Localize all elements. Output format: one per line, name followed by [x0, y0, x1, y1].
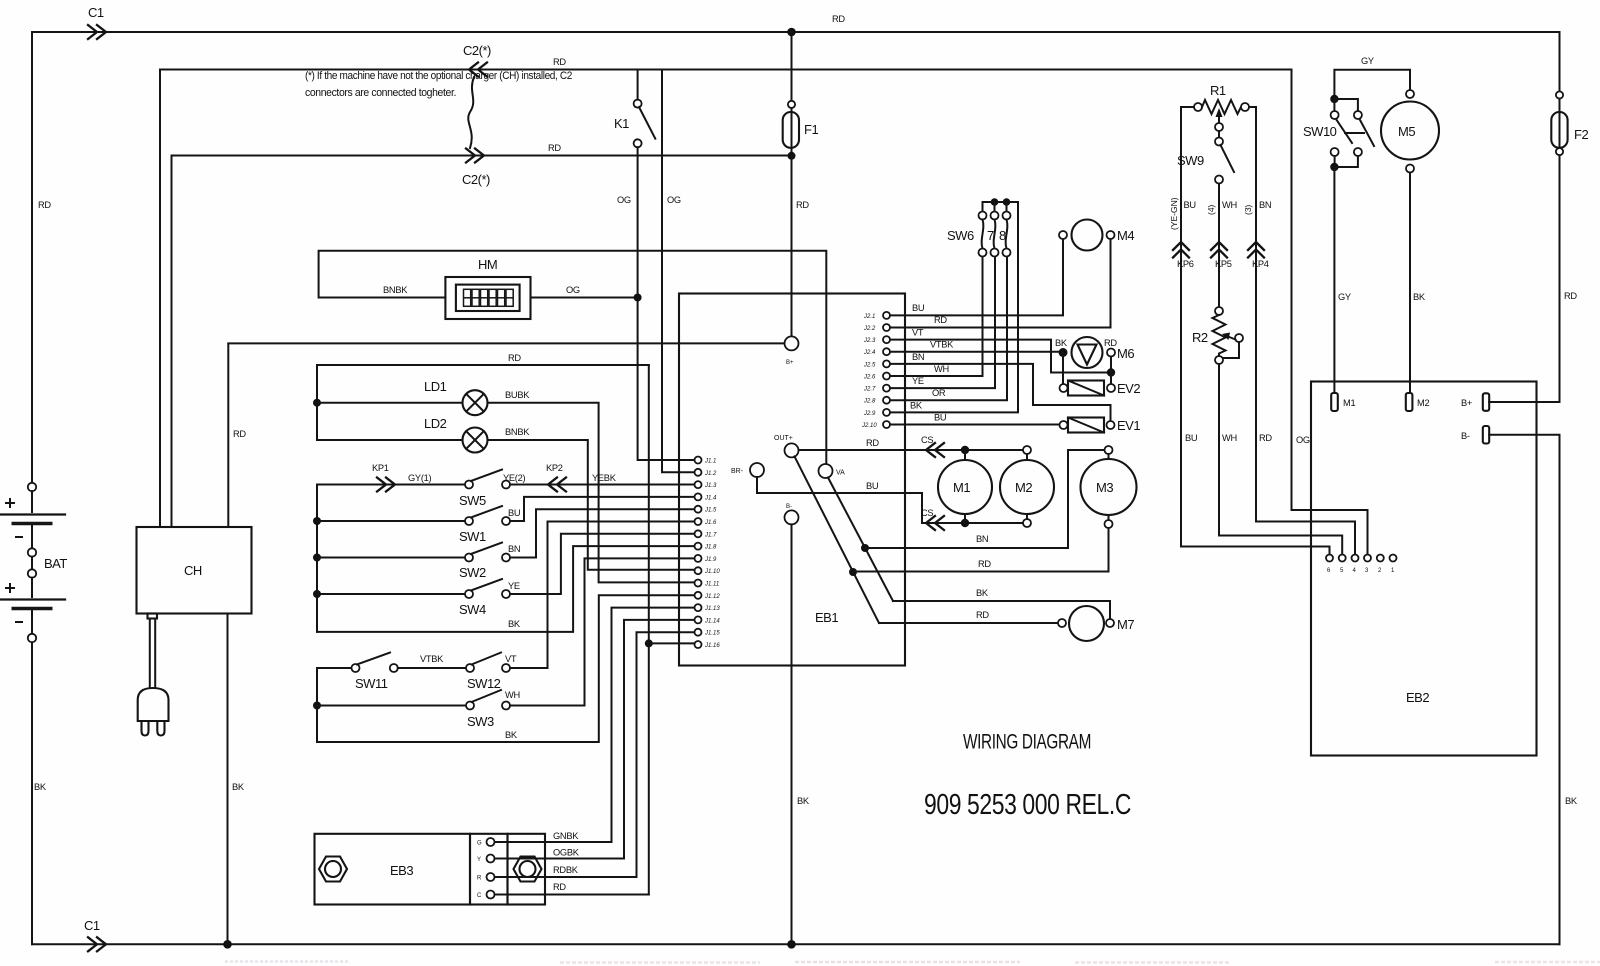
svg-text:M5: M5 — [1398, 124, 1415, 139]
svg-text:BU: BU — [1185, 433, 1197, 443]
wire C2 lower into CH — [171, 156, 173, 528]
svg-text:J2.10: J2.10 — [861, 423, 877, 429]
svg-text:J1.5: J1.5 — [704, 508, 717, 514]
svg-text:BN: BN — [976, 534, 988, 544]
fuse F2 — [1551, 32, 1588, 402]
svg-text:RD: RD — [548, 143, 561, 153]
svg-text:SW4: SW4 — [459, 602, 486, 617]
svg-text:C2(*): C2(*) — [462, 172, 490, 187]
svg-text:(*) If the machine have not th: (*) If the machine have not the optional… — [305, 70, 572, 82]
diagonal OUT+ to M7 RD wire — [795, 457, 880, 624]
svg-text:BN: BN — [1259, 200, 1271, 210]
J1 pin circles and labels — [695, 457, 721, 650]
svg-text:J2.9: J2.9 — [863, 411, 876, 417]
wire BK B- to bottom rail — [791, 524, 793, 944]
svg-text:C1: C1 — [88, 5, 104, 20]
node KP4 connector — [1248, 242, 1264, 258]
cell1 short plate — [12, 522, 53, 525]
wire OR J2.8 to SW6 pole3 — [890, 257, 1007, 401]
wire BK switch-box1 bottom — [317, 546, 695, 632]
svg-text:connectors are connected toghe: connectors are connected togheter. — [305, 87, 456, 99]
wire VT J2.3 to M6 RD and EV2 right — [890, 340, 1111, 373]
svg-text:BUBK: BUBK — [505, 390, 530, 400]
switch SW3 — [317, 558, 695, 729]
terminal B+ — [1483, 393, 1489, 411]
wire RD lamp-box top — [317, 364, 649, 366]
svg-text:F2: F2 — [1574, 127, 1588, 142]
motor M5 — [1381, 90, 1439, 173]
svg-text:OGBK: OGBK — [553, 848, 580, 858]
svg-text:RD: RD — [553, 57, 566, 67]
svg-text:KP6: KP6 — [1177, 259, 1194, 269]
wire WH R2 to EB2 pin5 — [1219, 364, 1342, 555]
wire RD lower C2 net — [172, 155, 792, 157]
svg-text:J2.4: J2.4 — [863, 350, 876, 356]
wire M6 BK to EV2 left — [1062, 353, 1064, 385]
svg-text:SW5: SW5 — [459, 493, 486, 508]
svg-text:RD: RD — [796, 200, 809, 210]
R1 wiper — [1218, 113, 1220, 123]
wire GY SW10 to EB2 M1 — [1333, 167, 1335, 393]
wire BNBK HM left to VA riser — [319, 251, 827, 464]
terminal circle bottom — [28, 634, 36, 642]
svg-text:K1: K1 — [614, 116, 629, 131]
svg-text:RD: RD — [1259, 433, 1272, 443]
svg-text:KP2: KP2 — [546, 463, 563, 473]
wire YE J2.7 to SW6 pole2 — [890, 257, 995, 389]
svg-text:B+: B+ — [1461, 398, 1472, 408]
terminal M1 — [1331, 393, 1338, 411]
svg-text:SW6: SW6 — [947, 228, 974, 243]
svg-text:J1.14: J1.14 — [704, 618, 720, 624]
fuse F1 — [783, 32, 819, 337]
svg-text:J1.7: J1.7 — [704, 532, 717, 538]
diagonal VA to M7 BK wire — [828, 478, 893, 602]
switch SW2 — [317, 509, 695, 580]
svg-text:GY: GY — [1361, 56, 1374, 66]
junction HM OG — [634, 294, 642, 302]
svg-text:B+: B+ — [786, 360, 794, 366]
terminal BR- — [750, 463, 764, 477]
board EB3 — [315, 608, 695, 905]
svg-text:C1: C1 — [84, 918, 100, 933]
bolt 1 — [319, 857, 347, 882]
potentiometer R2 — [1192, 307, 1243, 364]
terminal B+ — [785, 336, 799, 350]
terminal circles mid — [28, 548, 36, 556]
svg-text:CS: CS — [921, 508, 933, 518]
svg-text:J2.1: J2.1 — [863, 314, 875, 320]
motor M3 — [1081, 446, 1137, 528]
cell1 long plate — [0, 513, 65, 515]
junction LD1 bus — [313, 399, 321, 407]
svg-text:BNBK: BNBK — [383, 285, 408, 295]
svg-text:J1.11: J1.11 — [704, 582, 719, 588]
J2 pin circles and labels — [861, 312, 890, 429]
pump M6 — [1055, 337, 1134, 384]
svg-text:RD: RD — [233, 429, 246, 439]
svg-text:(4): (4) — [1206, 204, 1216, 215]
svg-text:RD: RD — [832, 14, 845, 24]
svg-text:R1: R1 — [1210, 83, 1226, 98]
wire WH J2.6 to SW6 pole1 — [890, 257, 983, 377]
svg-text:VTBK: VTBK — [420, 654, 444, 664]
wire RD OUT-diag end to M7 left — [879, 622, 1058, 624]
plus sign cell2 — [6, 584, 14, 592]
battery BAT — [0, 483, 67, 642]
wire OG to J1.1 — [638, 298, 695, 461]
svg-text:BU: BU — [866, 481, 878, 491]
svg-text:RD: RD — [553, 882, 566, 892]
wire RD B+ to CH — [228, 342, 784, 344]
svg-text:J1.10: J1.10 — [704, 569, 720, 575]
junction B- bottom — [787, 940, 796, 949]
board EB2 — [1311, 382, 1537, 756]
svg-text:BK: BK — [797, 796, 810, 806]
svg-text:J1.9: J1.9 — [704, 557, 717, 563]
wire BK J2.9 to SW6 bus — [890, 202, 1018, 412]
svg-text:RD: RD — [934, 315, 947, 325]
wire RD net riser to J1.16 and EB3 — [648, 365, 650, 895]
motor M4 — [1059, 220, 1134, 251]
svg-text:WH: WH — [1222, 433, 1237, 443]
minus sign cell2 — [16, 621, 22, 623]
svg-text:BU: BU — [912, 303, 924, 313]
svg-text:OG: OG — [566, 285, 580, 295]
wire top RD rail — [32, 31, 1560, 33]
svg-text:OUT+: OUT+ — [774, 435, 793, 442]
wire VTBK J2.4 to M6 BK — [890, 351, 1063, 353]
svg-text:J2.8: J2.8 — [863, 399, 876, 405]
svg-text:GY(1): GY(1) — [408, 473, 431, 483]
svg-text:J1.8: J1.8 — [704, 545, 717, 551]
jumper wavy line between C2 connectors — [468, 77, 474, 148]
wire BN J2.5 to EV1 right — [890, 364, 1111, 421]
switch SW6 — [947, 198, 1018, 256]
svg-text:SW12: SW12 — [467, 676, 501, 691]
valve EV1 — [1060, 418, 1141, 434]
wire BK B- to bottom rail — [1489, 435, 1559, 945]
svg-text:B-: B- — [1461, 431, 1470, 441]
svg-text:SW1: SW1 — [459, 529, 486, 544]
svg-text:BAT: BAT — [44, 556, 67, 571]
plus sign cell1 — [6, 499, 14, 507]
svg-text:RD: RD — [976, 610, 989, 620]
svg-text:M4: M4 — [1117, 228, 1134, 243]
svg-text:KP1: KP1 — [372, 463, 389, 473]
svg-text:WH: WH — [505, 690, 520, 700]
motor M7 — [1058, 606, 1134, 641]
switch SW4 — [317, 534, 695, 617]
svg-text:BK: BK — [1413, 292, 1426, 302]
lamp LD2 — [317, 416, 695, 570]
svg-text:BU: BU — [1184, 200, 1196, 210]
svg-text:BU: BU — [934, 413, 946, 423]
svg-text:M2: M2 — [1015, 480, 1032, 495]
switch K1 — [614, 70, 655, 298]
switch SW11 — [317, 653, 466, 692]
wire BK M5 to EB2 M2 — [1409, 173, 1411, 394]
switch SW9 — [1177, 131, 1234, 184]
svg-text:YE(2): YE(2) — [503, 473, 525, 483]
svg-text:LD2: LD2 — [424, 416, 447, 431]
switch SW12 — [466, 522, 695, 692]
svg-text:909 5253 000 REL.C: 909 5253 000 REL.C — [924, 789, 1131, 821]
svg-text:BK: BK — [508, 619, 521, 629]
wire BU J2.1 to M4 left — [890, 239, 1063, 315]
svg-text:J1.1: J1.1 — [704, 459, 716, 465]
svg-text:SW10: SW10 — [1303, 124, 1337, 139]
wire BK switch-box2 bottom — [317, 595, 695, 742]
wire BN VA-diag to M3 top — [865, 450, 1105, 548]
svg-text:J1.3: J1.3 — [704, 483, 717, 489]
svg-text:J1.2: J1.2 — [704, 471, 717, 477]
switch SW5 — [459, 470, 510, 509]
svg-text:OG: OG — [1296, 435, 1310, 445]
svg-text:RD: RD — [1104, 338, 1117, 348]
svg-text:SW3: SW3 — [467, 714, 494, 729]
wire BU J2.10 to EV1 left — [890, 424, 1060, 426]
terminal B- — [785, 510, 799, 524]
minus sign cell1 — [16, 536, 22, 538]
hour meter HM — [319, 251, 827, 464]
svg-text:YE: YE — [912, 376, 924, 386]
wire switch-box2 left bus — [316, 668, 318, 742]
motor M2 — [1000, 446, 1054, 527]
EB2 pins 6-1 — [1326, 555, 1397, 575]
svg-text:GNBK: GNBK — [553, 831, 579, 841]
terminal circle top — [28, 483, 36, 491]
svg-text:EB2: EB2 — [1406, 690, 1429, 705]
junction F1 top — [787, 28, 796, 37]
svg-text:M6: M6 — [1117, 346, 1134, 361]
svg-text:RDBK: RDBK — [553, 865, 579, 875]
svg-text:M7: M7 — [1117, 617, 1134, 632]
svg-text:F1: F1 — [804, 122, 818, 137]
svg-text:J1.16: J1.16 — [704, 643, 720, 649]
svg-text:B-: B- — [786, 504, 792, 510]
svg-text:J1.6: J1.6 — [704, 520, 717, 526]
mains plug of CH — [138, 614, 169, 736]
svg-text:HM: HM — [478, 257, 497, 272]
svg-text:BR-: BR- — [731, 468, 744, 475]
svg-text:YEBK: YEBK — [592, 473, 617, 483]
svg-text:RD: RD — [1564, 291, 1577, 301]
terminal OUT+ — [785, 443, 799, 457]
svg-text:KP4: KP4 — [1252, 259, 1269, 269]
svg-text:BK: BK — [910, 400, 923, 410]
svg-text:EV1: EV1 — [1117, 418, 1140, 433]
svg-text:J2.5: J2.5 — [863, 362, 876, 368]
wire GNBK to J1.13 — [495, 608, 695, 842]
wire RD to J1.16 dot — [495, 894, 649, 896]
svg-text:J2.3: J2.3 — [863, 338, 876, 344]
svg-text:J1.15: J1.15 — [704, 631, 720, 637]
svg-text:J2.2: J2.2 — [863, 326, 876, 332]
svg-text:M3: M3 — [1096, 480, 1113, 495]
svg-text:RD: RD — [508, 353, 521, 363]
bolt 2 — [514, 857, 542, 882]
svg-text:BN: BN — [912, 352, 924, 362]
svg-text:CH: CH — [184, 563, 202, 578]
svg-text:YE: YE — [508, 581, 520, 591]
svg-text:WH: WH — [934, 364, 949, 374]
svg-text:OG: OG — [617, 195, 631, 205]
svg-text:BK: BK — [505, 730, 518, 740]
svg-text:BN: BN — [508, 544, 520, 554]
wire M6 RD to EV2 right — [1110, 357, 1112, 385]
switch SW1 — [317, 497, 695, 544]
wire RDBK to J1.15 — [495, 632, 695, 877]
svg-text:J2.7: J2.7 — [863, 387, 876, 393]
potentiometer R1 — [1194, 83, 1249, 131]
wire left battery BK segment — [31, 642, 33, 944]
svg-text:VT: VT — [912, 328, 924, 338]
wire BU YE-GN kp6 branch — [1181, 107, 1330, 555]
wire BU BR- to M1 M2 bottom — [757, 477, 1023, 523]
svg-text:R2: R2 — [1192, 330, 1208, 345]
svg-text:C: C — [477, 893, 482, 899]
charger CH box — [137, 527, 252, 614]
lamp LD1 — [317, 379, 695, 582]
svg-text:BNBK: BNBK — [505, 427, 530, 437]
svg-text:M2: M2 — [1417, 398, 1429, 408]
svg-text:KP5: KP5 — [1215, 259, 1232, 269]
wire switch-box1 left bus — [316, 485, 318, 632]
cell2 short plate — [12, 607, 53, 610]
svg-text:VT: VT — [505, 654, 517, 664]
svg-text:OG: OG — [667, 195, 681, 205]
junction CH bottom — [223, 940, 232, 949]
svg-text:EB3: EB3 — [390, 863, 413, 878]
wire RD J2.2 to M4 right — [890, 239, 1111, 328]
switch SW10 (double pole) — [1303, 95, 1374, 171]
poles — [979, 212, 987, 220]
svg-text:SW2: SW2 — [459, 565, 486, 580]
wire OG HM right — [531, 297, 638, 299]
svg-text:Y: Y — [477, 857, 481, 863]
wire GY bus SW10-M5 — [1334, 70, 1410, 99]
wire OG to J1.2 — [662, 70, 695, 473]
svg-text:M1: M1 — [1343, 398, 1355, 408]
wire C2 upper into CH — [159, 70, 161, 528]
node KP5 connector — [1211, 242, 1227, 258]
terminal VA — [819, 464, 833, 478]
wire bottom BK rail — [32, 943, 1560, 945]
wire lamp-box left bus — [316, 365, 318, 440]
wire RD B+ to F2 — [1489, 401, 1559, 403]
svg-text:LD1: LD1 — [424, 379, 447, 394]
wire RD from EB1 B+ into CH — [227, 344, 229, 527]
svg-text:RD: RD — [978, 559, 991, 569]
wire WH kp5 branch upper — [1218, 184, 1220, 308]
scan artifacts bottom — [225, 962, 1600, 963]
svg-text:BK: BK — [1565, 796, 1578, 806]
svg-text:WH: WH — [1222, 200, 1237, 210]
svg-text:VA: VA — [836, 470, 845, 477]
svg-text:BK: BK — [34, 782, 47, 792]
motor M1 — [938, 446, 992, 527]
svg-text:BK: BK — [1055, 338, 1068, 348]
svg-text:CS: CS — [921, 435, 933, 445]
svg-text:M1: M1 — [953, 480, 970, 495]
junction M6-EV2 right — [1107, 368, 1115, 376]
wire RD M3 bottom to OUT-diag — [853, 528, 1109, 572]
wire BN kp4 branch — [1249, 107, 1355, 555]
svg-text:SW11: SW11 — [355, 676, 388, 691]
svg-text:WIRING DIAGRAM: WIRING DIAGRAM — [963, 730, 1091, 754]
svg-text:J2.6: J2.6 — [863, 375, 876, 381]
cell2 long plate — [0, 598, 65, 600]
wire OGBK to J1.14 — [495, 620, 695, 859]
valve EV2 — [1060, 381, 1141, 397]
svg-text:BK: BK — [232, 782, 245, 792]
terminal M2 — [1406, 393, 1413, 411]
svg-text:BK: BK — [976, 588, 989, 598]
svg-text:BU: BU — [508, 508, 520, 518]
terminal B- — [1483, 426, 1489, 444]
svg-text:J1.13: J1.13 — [704, 606, 720, 612]
svg-text:(3): (3) — [1243, 204, 1253, 215]
svg-text:RD: RD — [866, 438, 879, 448]
svg-text:RD: RD — [38, 200, 51, 210]
wire BK from CH to bottom rail — [227, 614, 229, 945]
HM digits — [464, 289, 514, 306]
svg-text:R: R — [477, 876, 482, 882]
SW6 bus — [983, 202, 1019, 212]
svg-text:EB1: EB1 — [815, 610, 838, 625]
svg-text:GY: GY — [1338, 292, 1351, 302]
svg-text:C2(*): C2(*) — [463, 43, 491, 58]
wire left battery RD segment — [31, 32, 33, 482]
wire RD OUT+ to M1 M2 top — [799, 449, 1024, 451]
svg-text:(YE-GN): (YE-GN) — [1169, 197, 1179, 230]
node KP6 connector — [1173, 242, 1189, 258]
svg-text:VTBK: VTBK — [930, 340, 954, 350]
board EB1 — [679, 294, 905, 666]
svg-text:G: G — [477, 841, 482, 847]
wire BK VA-diag end to M7 right — [893, 601, 1110, 619]
svg-text:OR: OR — [932, 388, 946, 398]
svg-text:EV2: EV2 — [1117, 381, 1140, 396]
svg-text:J1.12: J1.12 — [704, 594, 720, 600]
svg-text:J1.4: J1.4 — [704, 495, 717, 501]
R2 wiper — [1235, 334, 1243, 342]
wire RD upper C2 net (to right border, OG drop to EB2 pin3) — [160, 70, 1368, 555]
